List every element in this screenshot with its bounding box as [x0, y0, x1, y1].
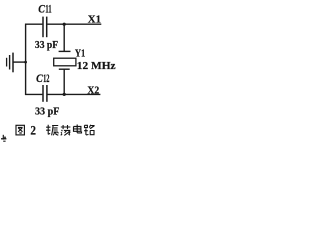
- caption hanzi dang (-ation): [61, 125, 71, 135]
- node junction ground-rail: [24, 61, 27, 64]
- capacitor C12 label: [36, 73, 50, 85]
- caption hanzi dian (electric): [74, 125, 82, 133]
- caption hanzi zhen (oscill-): [46, 125, 58, 136]
- crystal Y1 top plate: [59, 50, 71, 52]
- crystal Y1 bottom plate: [59, 68, 70, 70]
- partial glyph at page edge (crop artifact): [1, 135, 6, 141]
- wire C11 left lead: [25, 23, 42, 25]
- capacitor C11 label: [38, 4, 52, 16]
- node junction top: [63, 23, 66, 26]
- svg-text:33 pF: 33 pF: [35, 39, 58, 51]
- wire C12 left lead: [25, 93, 42, 95]
- wire X2 net (bottom): [48, 93, 101, 95]
- node junction bottom: [63, 93, 66, 96]
- wire crystal top stub: [63, 24, 65, 51]
- svg-text:2: 2: [30, 123, 36, 138]
- svg-text:X2: X2: [87, 84, 99, 96]
- svg-text:C: C: [38, 4, 45, 16]
- ground: [7, 53, 27, 73]
- svg-text:33 pF: 33 pF: [35, 105, 60, 117]
- svg-text:Y1: Y1: [75, 48, 85, 60]
- svg-text:12: 12: [43, 73, 50, 85]
- caption hanzi tu (figure): [16, 125, 24, 135]
- wire left rail: [25, 24, 27, 95]
- capacitor C12: [43, 85, 47, 102]
- caption hanzi lu (circuit/road): [84, 125, 94, 135]
- svg-text:12 MHz: 12 MHz: [77, 60, 116, 72]
- svg-text:X1: X1: [88, 14, 101, 26]
- wire crystal bottom stub: [63, 69, 65, 94]
- wire X1 net (top): [47, 23, 101, 25]
- capacitor C11: [43, 17, 47, 38]
- svg-text:C: C: [36, 73, 43, 85]
- svg-text:11: 11: [45, 4, 52, 16]
- crystal Y1 body: [54, 58, 76, 66]
